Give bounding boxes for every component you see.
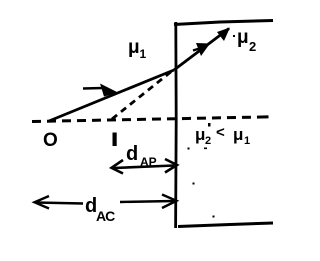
svg-text:AP: AP: [140, 155, 157, 169]
svg-text:μ: μ: [128, 37, 140, 58]
d_AP distance double arrow: [112, 159, 178, 174]
svg-text:2: 2: [249, 39, 256, 54]
arrowhead at tip of refracted ray: [217, 28, 230, 42]
scan speckles: [188, 148, 190, 150]
medium-2 top boundary line: [174, 21, 273, 25]
virtual ray extension I to interface (dashed): [112, 71, 172, 119]
svg-text:AC: AC: [96, 208, 115, 224]
direction arrow on refracted ray: [193, 43, 210, 56]
svg-text:1: 1: [244, 135, 250, 147]
refracted ray in medium 2: [174, 29, 229, 71]
svg-text:<: <: [216, 124, 225, 141]
medium-2 bottom boundary line: [178, 223, 273, 227]
axis last dash extension: [265, 115, 269, 118]
svg-text:2: 2: [205, 135, 211, 147]
svg-text:μ: μ: [233, 125, 243, 144]
direction arrow on incident ray: [83, 84, 118, 97]
incident ray O to interface: [49, 70, 174, 121]
label I: [113, 133, 117, 147]
svg-text:d: d: [126, 143, 138, 165]
svg-text:1: 1: [140, 47, 147, 61]
svg-text:O: O: [43, 130, 58, 151]
principal axis (dashed): [32, 117, 271, 122]
d_AC distance double arrow: [35, 195, 177, 209]
svg-text:μ: μ: [237, 27, 249, 48]
label mu2 < mu1: [195, 123, 250, 147]
svg-text:μ: μ: [195, 125, 205, 144]
interface vertical line: [174, 22, 177, 228]
